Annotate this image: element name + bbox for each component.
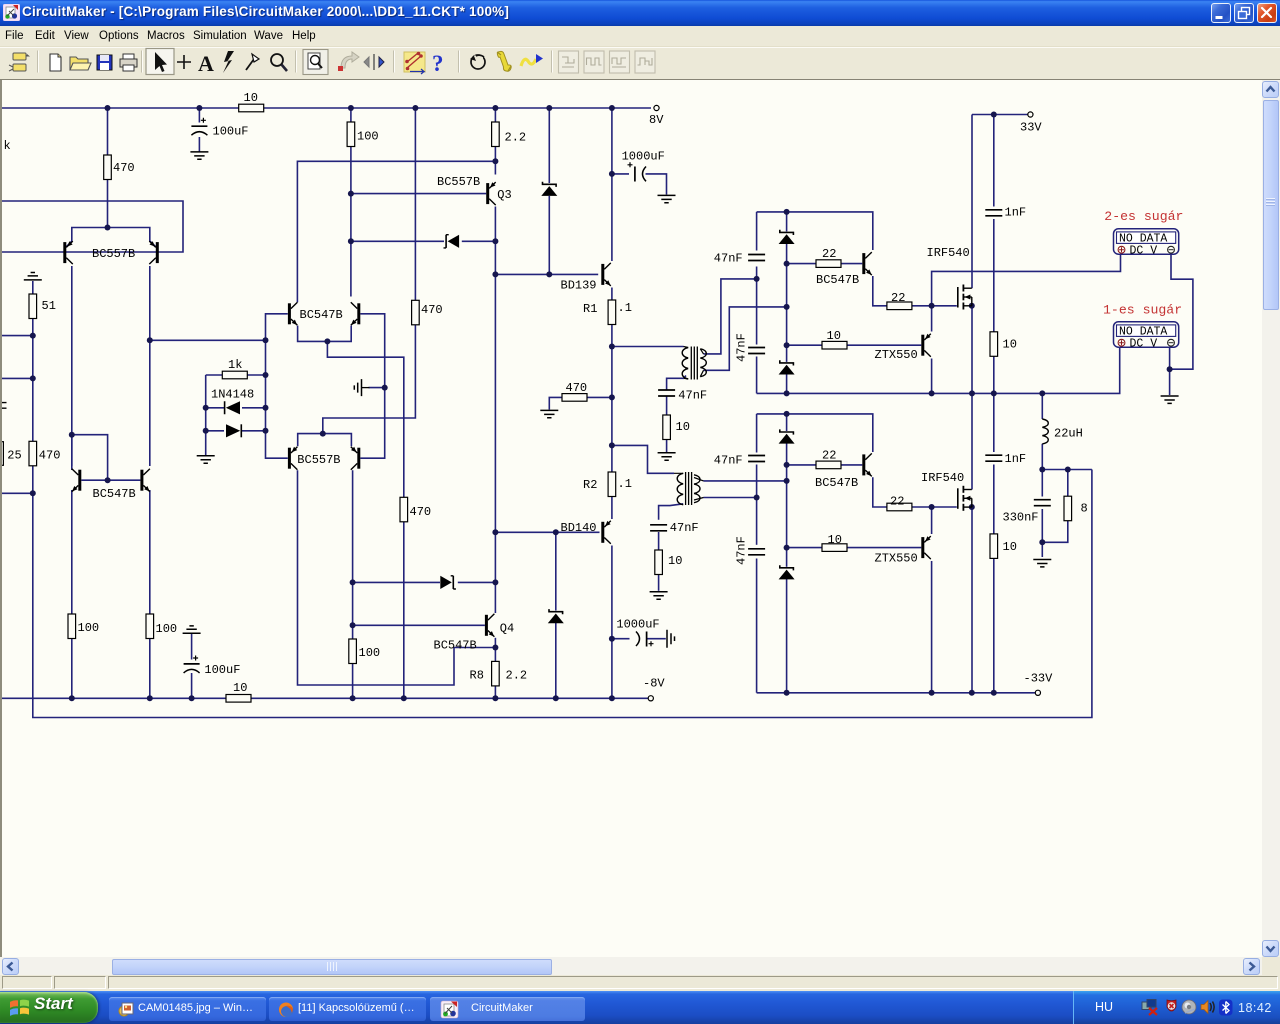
resistor 10 T2 chain (655, 550, 683, 575)
wire feedback to input pair right base (2, 201, 183, 252)
ground above 51 ohm (24, 273, 42, 280)
horizontal scrollbar (0, 957, 1262, 975)
wire upper clamp diode right (462, 240, 496, 242)
capacitor 47nF T1 chain (657, 388, 707, 402)
svg-text:22: 22 (891, 291, 905, 305)
wire BD139 emitter to R1 (611, 288, 613, 301)
svg-text:-33V: -33V (1024, 672, 1054, 686)
svg-text:Q3: Q3 (497, 188, 511, 202)
diode 1N4148 upper (211, 388, 254, 415)
capacitor 1000uF negative (616, 618, 659, 649)
wire output to T1 primary top (612, 346, 684, 348)
wire tail resistor to +8V rail (107, 108, 109, 155)
transformer T1 primary coil (682, 348, 688, 380)
junction dots gate node 1 (929, 303, 975, 309)
wire R2 to BD140 emitter (611, 497, 613, 520)
transformer T2 core (686, 472, 692, 505)
resistor 22 gate 1 (887, 291, 912, 310)
svg-text:47nF: 47nF (714, 252, 743, 266)
wire 47nF3 to neg rail (756, 559, 758, 693)
resistor 470 NPN tail (400, 497, 431, 522)
wire T2 primary bottom to 47nF (659, 504, 684, 520)
resistor 22 gate drive 2 (816, 449, 841, 469)
svg-text:R1: R1 (583, 302, 597, 316)
transistor BC547B driver 1 (816, 252, 872, 287)
fragment capacitor at canvas edge (2, 403, 7, 409)
capacitor 100uF positive rail (190, 118, 249, 139)
capacitor 47nF boot 1 (714, 252, 766, 266)
transformer T2 primary coil (677, 473, 683, 505)
junction dots section 2 (754, 411, 790, 551)
wire 1nF to 10R snub1 (993, 219, 995, 332)
wire NPN tail to 470 (327, 341, 403, 497)
wire 100R to -8V rail a (71, 639, 73, 699)
wire Q3 base (351, 193, 486, 195)
transistor BD140 (561, 521, 611, 544)
wire mirror right emitter to 100R (149, 490, 151, 614)
wire ZTX1 emitter up (931, 306, 933, 332)
wire gate node to meter2 plus (932, 255, 1121, 306)
junction dots clamp cluster (203, 372, 269, 434)
diode 1N4148 lower (226, 424, 241, 437)
svg-text:47nF: 47nF (678, 388, 707, 402)
svg-text:47nF: 47nF (670, 521, 699, 535)
svg-text:47nF: 47nF (735, 536, 749, 565)
wire BC547b2 emitter to 22R (873, 477, 887, 507)
wire Z2 anode (786, 443, 788, 465)
wire 10R to ground T1 (666, 440, 668, 453)
svg-text:R8: R8 (470, 669, 484, 683)
svg-text:47nF: 47nF (735, 333, 749, 362)
svg-text:BC547B: BC547B (815, 476, 858, 490)
wire left stub a (2, 335, 33, 337)
wire Q4 emitter to R8 (494, 638, 496, 662)
zener Z2 (779, 429, 795, 443)
resistor 10 ZTX base 2 (822, 533, 847, 551)
resistor 100 driver lower (349, 639, 380, 664)
svg-text:DC V: DC V (1130, 338, 1158, 351)
resistor 22 gate 2 (887, 495, 912, 511)
junction dots output rail 1 (784, 390, 1046, 396)
transformer T1 core (691, 347, 697, 380)
junction dots VAS column (348, 158, 552, 277)
wire boot column2 to 47nF2 (756, 414, 758, 453)
wire inv ground to 100uF2 (191, 633, 193, 659)
wire 100R to -8V rail c (352, 664, 354, 699)
wire 8R bottom (1042, 521, 1068, 543)
wire T2 secondary bottom (704, 497, 757, 499)
svg-text:-8V: -8V (643, 677, 665, 691)
wire T3 collector to Q3 emitter node (297, 161, 495, 302)
transformer T2 (674, 472, 704, 505)
transistor BC547B mirror right (93, 469, 150, 501)
transformer T2 lead stubs (674, 473, 704, 500)
wire R8 to -8V rail (494, 686, 496, 698)
transistor BC547B second stage right (300, 302, 361, 325)
capacitor 1nF snubber 2 (984, 452, 1026, 466)
wire PNP pair emitters (298, 434, 352, 447)
wire diode clamp left rail (205, 375, 207, 455)
mosfet IRF540 upper (927, 246, 972, 310)
wire to 1000uF pos (612, 173, 629, 175)
svg-text:BC557B: BC557B (297, 453, 340, 467)
wire meter2 minus path (1170, 255, 1193, 369)
resistor 10 negative rail (226, 681, 251, 702)
svg-text:.1: .1 (618, 477, 632, 491)
ground meters (1161, 396, 1179, 403)
junction dots output filter (1039, 366, 1172, 545)
diode clamp lower (440, 576, 456, 589)
terminal 8V (649, 105, 664, 127)
transformer T1 (682, 347, 706, 380)
wire right bases tie (360, 314, 384, 458)
junction dots second stage (69, 338, 388, 483)
menu bar (0, 26, 1280, 47)
wire gate drive 2a (787, 464, 816, 466)
wire gate drive 1b (841, 263, 862, 265)
wire out to 22uH (1041, 393, 1043, 419)
svg-text:470: 470 (39, 449, 61, 463)
wire first stage output node (150, 339, 266, 341)
wire Q3 collector column (494, 207, 496, 614)
svg-text:1k: 1k (228, 358, 242, 372)
wire 1k right lead (247, 374, 265, 376)
svg-text:8: 8 (1081, 502, 1088, 516)
svg-text:10: 10 (668, 554, 682, 568)
wire BD139 base (495, 273, 598, 275)
resistor 100 mirror right (146, 614, 177, 639)
svg-text:BC547B: BC547B (93, 487, 136, 501)
transistor BC547B mirror left (72, 469, 82, 492)
wire Z1 anode chain (786, 243, 788, 307)
wire boot rail 1 (757, 212, 873, 250)
svg-text:330nF: 330nF (1003, 511, 1039, 525)
wire node to 47nF1b (756, 279, 758, 345)
svg-text:NO DATA: NO DATA (1119, 233, 1167, 246)
svg-text:100uF: 100uF (204, 663, 240, 677)
wire lower clamp diode right (458, 581, 496, 583)
svg-text:22: 22 (822, 449, 836, 463)
svg-text:BD139: BD139 (561, 279, 597, 293)
wire T4 collector column (350, 108, 352, 297)
junction dots driver column (350, 529, 559, 650)
svg-text:470: 470 (421, 303, 443, 317)
wire Zs1 to BD139 base (548, 196, 550, 274)
wire mirror bases (81, 479, 140, 481)
window title bar (0, 0, 1280, 26)
wire +8V to zener Zs1 (548, 108, 550, 183)
svg-text:BC547B: BC547B (300, 308, 343, 322)
wire 2R2 top (494, 108, 496, 122)
zener Zs2 (548, 609, 564, 623)
wire gate drive 1a (787, 263, 816, 265)
svg-text:ZTX550: ZTX550 (875, 348, 918, 362)
wire R1 to R2 output column (611, 325, 613, 473)
wire 470 to -8V rail (403, 522, 405, 699)
wire T1 secondary bottom (704, 307, 787, 370)
ground 1000uF neg rotated (667, 630, 675, 648)
wire 10R to neg rail (993, 558, 995, 692)
wire left stub b (2, 377, 33, 379)
wire PNP left collector to Q4 emitter (298, 470, 496, 685)
svg-text:100: 100 (357, 130, 379, 144)
wire 51ohm to 470 (32, 336, 34, 442)
wire meters to ground (1169, 369, 1171, 395)
transistor BC547B second stage left (288, 302, 298, 325)
wire ZTX2 base a (787, 547, 822, 549)
resistor 470 left column (29, 441, 60, 466)
svg-text:k: k (4, 139, 11, 153)
junction dots -8V rail (69, 695, 615, 701)
wire BD139 collector to +8V (611, 108, 613, 261)
transformer T2 secondary coil (694, 475, 700, 503)
wire T1 collector to current mirror left (71, 266, 73, 470)
meter NO DATA upper (1114, 229, 1179, 258)
junction dots gate node 2 (929, 504, 975, 510)
wire 10R to out rail1 (993, 356, 995, 393)
svg-text:2-es sugár: 2-es sugár (1104, 209, 1183, 224)
junction dots -33V rail (784, 690, 997, 696)
wire boot column to 47nF1 (756, 212, 758, 251)
wire to 8R (1067, 470, 1069, 497)
diode clamp upper (444, 235, 460, 248)
wire mirror base tie (72, 435, 108, 481)
ground 1000uF pos (658, 195, 676, 202)
wire BC547 emitter to 22R (873, 276, 887, 306)
wire PNP right collector down (352, 470, 354, 639)
capacitor 47nF T2 chain (649, 521, 699, 535)
wire upper clamp diode left (351, 240, 444, 242)
wire filter node east (1042, 469, 1092, 471)
ground below 100uF (190, 152, 208, 159)
wire ground stub to base tie (369, 387, 385, 389)
wire BD140 base to zener Zs2 (555, 532, 557, 610)
wire boot rail 2 (757, 414, 873, 452)
svg-text:BC557B: BC557B (92, 247, 135, 261)
wire MOSFET1 source to out rail1 (971, 306, 973, 394)
wire 470 to +8V rail b (414, 108, 416, 300)
svg-text:100: 100 (359, 646, 381, 660)
capacitor 47nF coupling 1 (735, 333, 767, 362)
wire to 330nF (1041, 470, 1043, 497)
wire gate drive 2b (841, 464, 862, 466)
svg-text:BC557B: BC557B (437, 175, 480, 189)
wire D1 right lead (242, 407, 266, 409)
wire NPN pair emitters (298, 326, 352, 342)
wire T1 secondary top (704, 279, 757, 354)
wire 1000uF2 to ground (647, 638, 666, 640)
junction dots input stage (30, 225, 269, 497)
wire 100R to -8V rail b (149, 639, 151, 699)
wire Z1b to out rail1 (786, 374, 788, 394)
wire 470R to ground (549, 397, 562, 409)
svg-text:22uH: 22uH (1054, 427, 1083, 441)
wire MOSFET2 source to neg rail (971, 507, 973, 693)
svg-text:25: 25 (7, 449, 21, 463)
canvas (0, 79, 1280, 80)
wire T1 primary bottom to 47nF (667, 376, 686, 391)
mosfet IRF540 lower (921, 471, 972, 511)
resistor 10 snubber 2 (990, 534, 1017, 559)
ground below diode clamp (197, 456, 215, 463)
transistor BC547B driver 2 (815, 453, 872, 490)
svg-text:1000uF: 1000uF (616, 618, 659, 632)
svg-text:100: 100 (78, 621, 100, 635)
svg-text:470: 470 (566, 381, 588, 395)
wire 100uF to ground (198, 137, 200, 152)
resistor 22 gate drive 1 (816, 247, 841, 267)
junction dots output column (609, 171, 615, 642)
wire 47nF to 10R (666, 396, 668, 415)
svg-text:33V: 33V (1020, 121, 1042, 135)
meter NO DATA lower (1114, 322, 1179, 351)
resistor 2.2 Q3 (492, 122, 527, 147)
wire feedback bus from output filter (33, 466, 1092, 718)
terminal -8V (643, 677, 665, 701)
wire input signal to left base (2, 251, 63, 253)
transistor BC557B second stage left (288, 447, 298, 470)
wire mirror right collector to stage1 output (149, 340, 151, 466)
svg-text:47nF: 47nF (714, 454, 743, 468)
svg-text:22: 22 (890, 495, 904, 509)
wire 2R2 to Q3 emitter (494, 147, 496, 175)
svg-text:BC547B: BC547B (816, 273, 859, 287)
wire MOSFET2 drain to out rail1 (971, 393, 973, 489)
capacitor 47nF boot 2 (714, 454, 766, 468)
svg-text:470: 470 (113, 161, 135, 175)
resistor 25 partial at canvas edge (0, 442, 22, 466)
wire input pair emitters (66, 228, 156, 247)
svg-text:1nF: 1nF (1005, 452, 1027, 466)
resistor 470 to ground (562, 381, 587, 401)
wire 22uH to filter node (1041, 444, 1043, 470)
wire node to zener Z3 (786, 548, 788, 567)
resistor 100 mirror left (68, 614, 99, 639)
svg-text:1nF: 1nF (1005, 206, 1027, 220)
wire ZTX1 base b (847, 344, 921, 346)
svg-text:R2: R2 (583, 478, 597, 492)
svg-text:8V: 8V (649, 113, 664, 127)
wire ground-51ohm-node (32, 281, 34, 336)
svg-text:10: 10 (1003, 540, 1017, 554)
wire 330nF to gnd node (1041, 509, 1043, 542)
transformer T1 secondary coil (700, 349, 706, 377)
wire 47nF1b to out rail1 (756, 357, 758, 394)
wire 33V to MOSFET1 drain (971, 115, 973, 289)
wire sec bottom to ZTX base node (786, 307, 788, 345)
transistor BC557B second stage right (297, 447, 360, 470)
zener Z3 (779, 565, 795, 579)
transistor BC557B input left (63, 241, 73, 264)
capacitor 330nF (1003, 500, 1052, 525)
wire D2 right lead (242, 430, 266, 432)
junction dots boot column 1 (754, 209, 790, 348)
wire -8V rail west (2, 697, 226, 699)
resistor 10 T1 chain (663, 415, 690, 440)
svg-text:100: 100 (156, 622, 178, 636)
wire Zs2 to -8V rail (555, 623, 557, 698)
svg-text:Q4: Q4 (500, 622, 514, 636)
wire ZTX1 collector down (931, 359, 933, 394)
svg-text:1N4148: 1N4148 (211, 388, 254, 402)
wire ZTX2 emitter up (931, 507, 933, 534)
zener Zs1 (541, 182, 557, 196)
wire PNP tail to 470 (323, 325, 416, 434)
svg-text:?: ? (432, 51, 444, 76)
resistor 51 (29, 294, 56, 319)
wire node to zener Z1b (786, 345, 788, 362)
wire 1k left lead (206, 374, 223, 376)
svg-text:BC547B: BC547B (434, 639, 477, 653)
svg-text:1000uF: 1000uF (622, 150, 665, 164)
transistor BD139 (561, 263, 611, 293)
transistor Q4 BC547B (434, 614, 495, 653)
toolbar (0, 47, 1280, 77)
wire mirror left collector (71, 435, 73, 466)
svg-text:A: A (198, 51, 214, 76)
ground T1 chain (658, 453, 676, 460)
status bar (0, 975, 1280, 991)
transistor ZTX550 pull-down 2 (875, 536, 931, 565)
wire T2 collector down (149, 266, 151, 340)
resistor 100 VAS load (347, 122, 379, 147)
svg-text:51: 51 (42, 299, 56, 313)
wire BD140 collector to -8V rail (611, 546, 613, 699)
capacitor 1nF snubber 1 (984, 206, 1026, 220)
ground zobel (1033, 560, 1051, 567)
terminal -33V (1024, 672, 1054, 696)
wire D1 left lead (206, 407, 224, 409)
wire out rail to 1nF2 (993, 393, 995, 452)
junction dots +8V rail (105, 105, 615, 111)
wire to zener Z1 (786, 212, 788, 232)
svg-text:IRF540: IRF540 (927, 246, 970, 260)
wire to 1000uF neg (612, 638, 630, 640)
resistor 1k (222, 358, 247, 379)
transistor ZTX550 pull-down 1 (875, 334, 931, 362)
svg-text:100uF: 100uF (213, 125, 249, 139)
wire mirror left emitter to 100R (71, 490, 73, 614)
wire 33V feed (972, 114, 1028, 116)
taskbar (0, 991, 1280, 1024)
svg-text:.1: .1 (618, 301, 632, 315)
resistor R2 0.1 (608, 472, 632, 497)
wire to zener Z2 (786, 414, 788, 431)
junction dots 33V (991, 112, 997, 118)
transistor Q3 BC557B (437, 175, 496, 205)
resistor R1 0.1 (608, 300, 632, 325)
svg-text:ZTX550: ZTX550 (875, 552, 918, 566)
svg-text:BD140: BD140 (561, 521, 597, 535)
resistor 8 speaker (1064, 496, 1088, 521)
svg-text:470: 470 (410, 505, 432, 519)
svg-text:10: 10 (827, 329, 841, 343)
wire 22R to gate 1 (912, 305, 957, 307)
wire meter1 minus down (1169, 348, 1171, 370)
wire -33V rail (757, 692, 1036, 694)
resistor 10 ZTX base 1 (822, 329, 847, 349)
wire D2 left lead (206, 430, 224, 432)
vertical scrollbar (1262, 80, 1280, 958)
svg-text:1-es sugár: 1-es sugár (1103, 303, 1182, 318)
svg-text:10: 10 (1003, 338, 1017, 352)
transformer T1 lead stubs (684, 347, 704, 380)
capacitor 100uF negative rail (182, 656, 240, 678)
wire T2 secondary top (704, 480, 787, 482)
svg-text:10: 10 (244, 91, 258, 105)
wire output rail 1 to meter1 plus (757, 348, 1120, 394)
wire to second stage PNP left base (266, 340, 288, 458)
